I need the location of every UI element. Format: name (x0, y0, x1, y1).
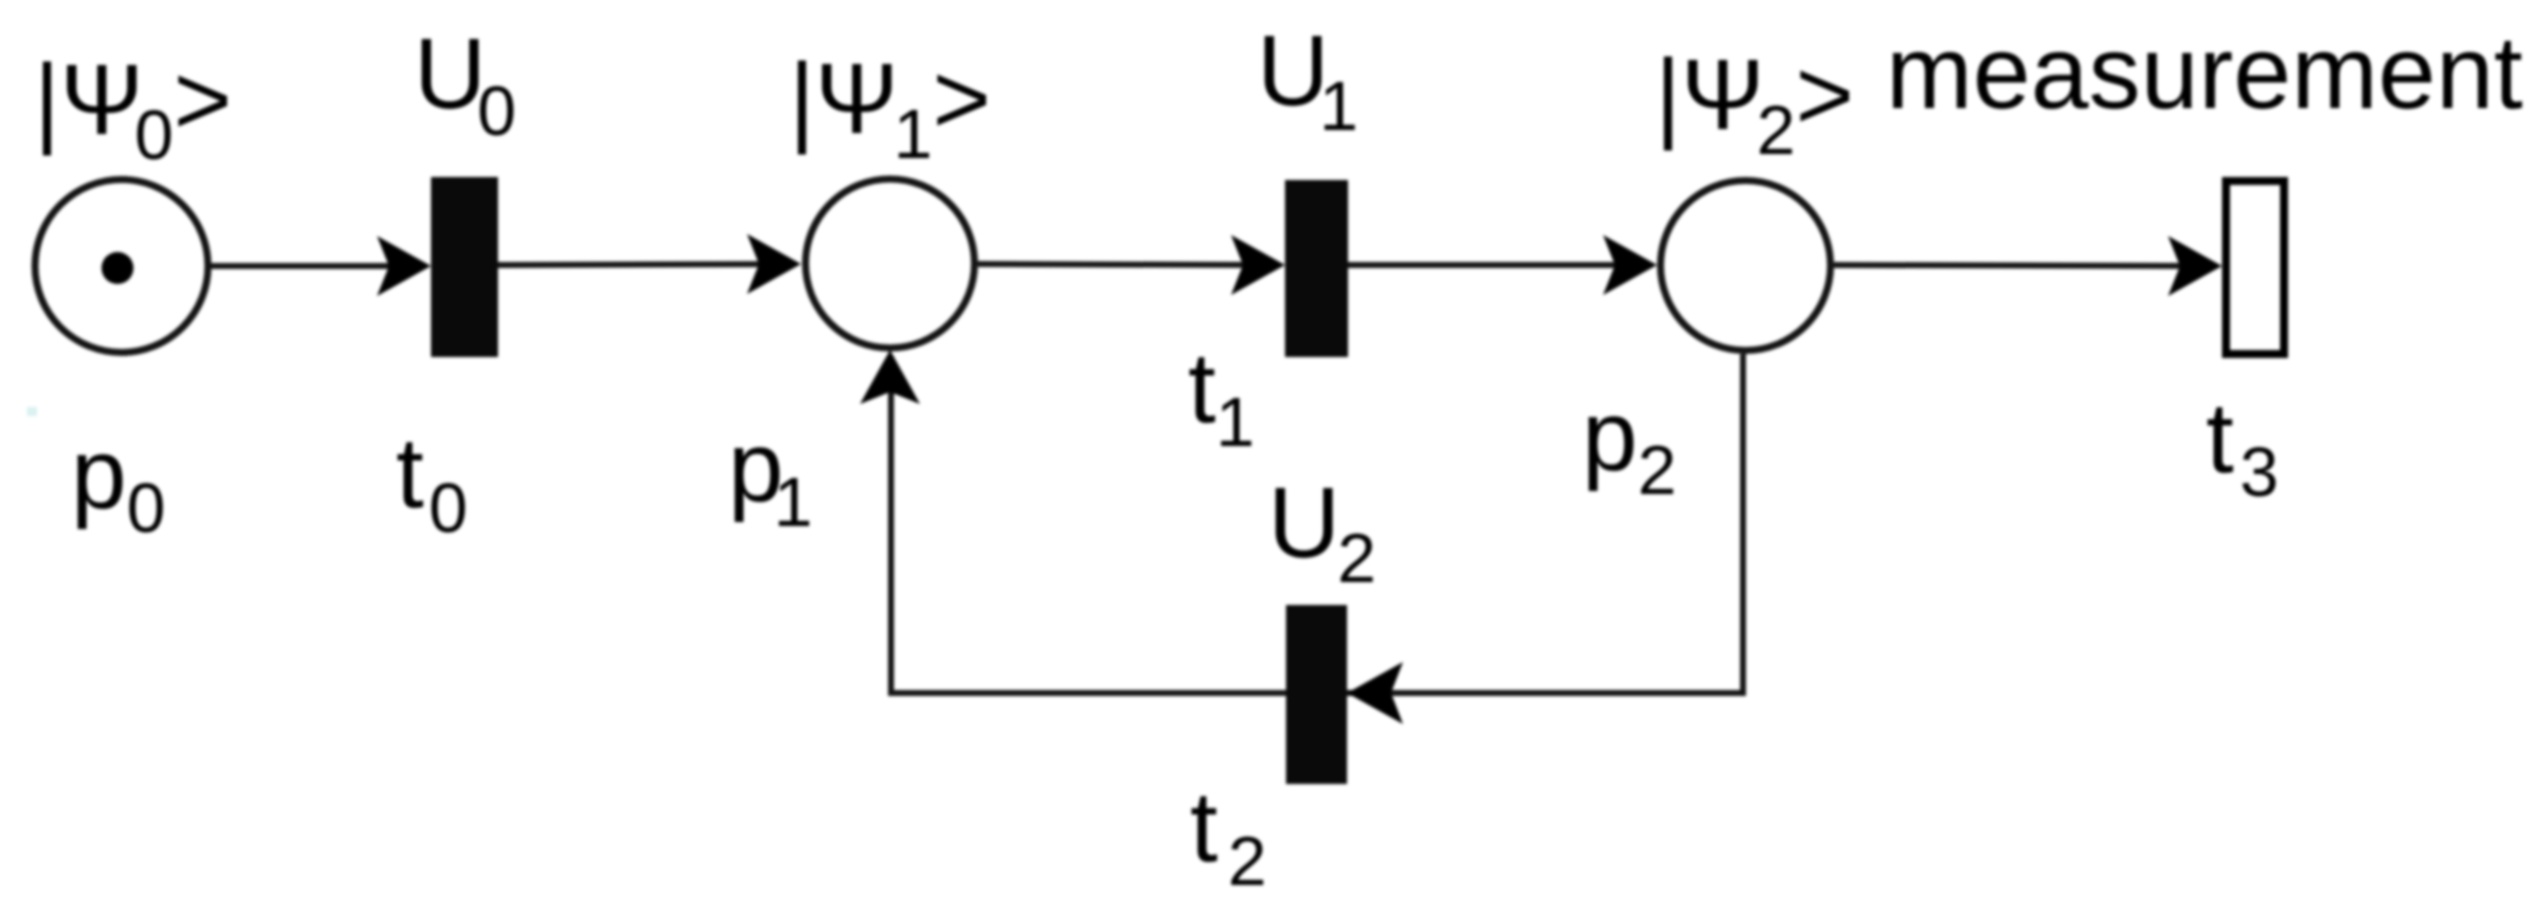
svg-text:U2: U2 (1268, 467, 1376, 597)
svg-text:|Ψ2>: |Ψ2> (1655, 39, 1854, 169)
svg-text:t0: t0 (396, 417, 468, 547)
svg-text:U0: U0 (414, 18, 516, 150)
svg-text:|Ψ0>: |Ψ0> (34, 44, 232, 174)
svg-text:t2: t2 (1190, 771, 1267, 900)
svg-text:|Ψ1>: |Ψ1> (789, 43, 991, 173)
svg-text:p1: p1 (728, 411, 813, 541)
svg-text:t3: t3 (2206, 382, 2279, 511)
svg-text:p0: p0 (71, 418, 166, 547)
svg-text:U1: U1 (1257, 15, 1358, 145)
svg-text:measurement: measurement (1886, 15, 2523, 131)
svg-text:p2: p2 (1582, 380, 1677, 509)
svg-text:t1: t1 (1188, 332, 1255, 461)
